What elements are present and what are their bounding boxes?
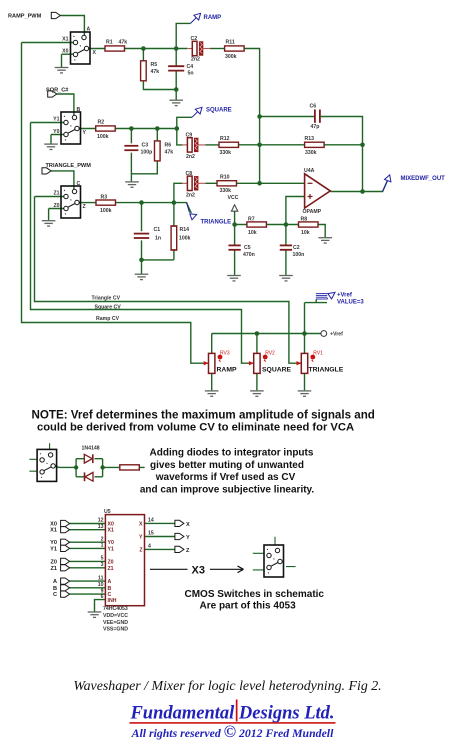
svg-text:4: 4 [148,544,151,550]
svg-text:U5: U5 [104,509,111,515]
svg-text:3: 3 [101,562,104,568]
svg-text:B: B [77,107,81,113]
svg-text:2n2: 2n2 [191,57,200,63]
svg-text:X1: X1 [50,528,57,534]
svg-text:47p: 47p [311,124,320,130]
svg-text:RAMP: RAMP [204,15,222,21]
svg-text:R10: R10 [220,175,230,181]
svg-text:10k: 10k [248,230,257,236]
svg-text:47k: 47k [165,150,174,156]
svg-text:VALUE=3: VALUE=3 [337,300,364,306]
svg-text:Y1: Y1 [108,546,114,552]
svg-text:Y1: Y1 [50,546,57,552]
svg-text:SQUARE: SQUARE [206,108,232,114]
svg-text:100n: 100n [293,252,305,258]
svg-text:RV3: RV3 [220,350,230,356]
svg-text:C2: C2 [191,36,198,42]
svg-text:5n: 5n [188,71,194,77]
svg-text:X: X [93,50,97,56]
svg-text:47k: 47k [119,40,128,46]
svg-text:R5: R5 [151,62,158,68]
svg-text:Z0: Z0 [53,203,59,209]
svg-text:Z: Z [186,548,190,554]
svg-text:NOTE: Vref determines the maxi: NOTE: Vref determines the maximum amplit… [32,408,375,421]
svg-text:R6: R6 [165,143,172,149]
svg-text:10: 10 [98,582,104,588]
svg-text:C4: C4 [187,64,194,70]
svg-text:2n2: 2n2 [186,154,195,160]
svg-text:C2: C2 [293,245,300,251]
svg-text:C6: C6 [310,104,317,110]
svg-text:C9: C9 [186,133,193,139]
svg-text:Y0: Y0 [53,129,59,135]
svg-text:100k: 100k [179,236,191,242]
svg-text:Y0: Y0 [50,540,57,546]
svg-text:R12: R12 [220,136,230,142]
svg-text:330k: 330k [305,150,317,156]
svg-text:VEE=GND: VEE=GND [103,620,128,626]
svg-text:47k: 47k [151,69,160,75]
svg-text:100k: 100k [100,208,112,214]
svg-text:+Vref: +Vref [337,293,353,299]
svg-text:12: 12 [98,518,104,524]
svg-text:11: 11 [98,575,104,581]
svg-text:Z1: Z1 [108,566,114,572]
svg-text:330k: 330k [220,188,232,194]
svg-text:1: 1 [101,543,104,549]
svg-text:VCC: VCC [228,195,239,201]
svg-text:14: 14 [148,518,154,524]
svg-text:Z1: Z1 [53,191,59,197]
svg-text:+Vref: +Vref [330,332,343,338]
svg-text:could be derived from volume C: could be derived from volume CV to elimi… [37,422,354,434]
svg-text:300k: 300k [225,54,237,60]
svg-text:10k: 10k [301,230,310,236]
svg-text:B: B [108,586,112,592]
svg-text:C3: C3 [142,143,149,149]
svg-text:Waveshaper / Mixer for logic l: Waveshaper / Mixer for logic level heter… [73,679,381,694]
svg-text:R7: R7 [248,217,255,223]
svg-text:B: B [53,586,57,592]
svg-text:X0: X0 [108,522,114,528]
svg-text:Z0: Z0 [108,559,114,565]
svg-text:C1: C1 [154,227,161,233]
svg-text:RAMP: RAMP [217,367,237,374]
svg-text:X0: X0 [50,522,57,528]
svg-text:100p: 100p [141,150,153,156]
svg-text:RAMP_PWM: RAMP_PWM [8,14,42,20]
svg-text:A: A [53,579,57,585]
svg-text:C8: C8 [186,171,193,177]
svg-text:1n: 1n [155,236,161,242]
svg-text:X: X [139,521,143,527]
svg-text:TRIANGLE_PWM: TRIANGLE_PWM [46,163,92,169]
svg-text:R14: R14 [180,227,190,233]
svg-text:U4A: U4A [304,168,315,174]
svg-text:R8: R8 [301,217,308,223]
svg-text:5: 5 [101,556,104,562]
svg-text:Y: Y [186,535,190,541]
svg-text:VDD=VCC: VDD=VCC [103,613,128,619]
svg-text:R2: R2 [98,120,105,126]
svg-text:INH: INH [108,598,117,604]
svg-text:R13: R13 [305,136,315,142]
svg-text:Z0: Z0 [50,559,57,565]
svg-text:Y1: Y1 [53,117,59,123]
svg-text:A: A [108,579,112,585]
svg-text:OPAMP: OPAMP [303,209,322,215]
svg-text:Y0: Y0 [108,540,114,546]
svg-text:X3: X3 [192,565,205,577]
svg-text:Y: Y [83,130,87,136]
svg-text:RV1: RV1 [313,350,323,356]
svg-text:2: 2 [101,536,104,542]
svg-text:and can improve subjective lin: and can improve subjective linearity. [140,484,315,495]
svg-text:waveforms if Vref used as CV: waveforms if Vref used as CV [155,472,296,483]
svg-text:Adding diodes to integrator in: Adding diodes to integrator inputs [150,448,314,459]
svg-text:2n2: 2n2 [186,193,195,199]
svg-text:X0: X0 [62,49,68,55]
svg-text:Are part of this 4053: Are part of this 4053 [200,600,297,611]
svg-text:TRIANGLE: TRIANGLE [309,367,344,374]
svg-text:C: C [77,181,81,187]
svg-text:SQR_C#: SQR_C# [46,88,69,94]
svg-text:MIXEDWF_OUT: MIXEDWF_OUT [401,176,446,182]
svg-text:74HC4053: 74HC4053 [103,606,128,612]
svg-text:R3: R3 [101,195,108,201]
svg-text:Fundamental Designs Ltd.: Fundamental Designs Ltd. [129,704,334,724]
svg-text:Y: Y [139,535,143,541]
svg-text:470n: 470n [243,252,255,258]
svg-text:Ramp CV: Ramp CV [96,316,120,322]
svg-text:SQUARE: SQUARE [262,367,292,374]
svg-text:R1: R1 [106,40,113,46]
svg-text:X1: X1 [108,528,114,534]
svg-text:TRIANGLE: TRIANGLE [201,220,232,226]
svg-text:A: A [87,27,91,33]
svg-text:RV2: RV2 [265,350,275,356]
svg-text:C: C [53,592,57,598]
svg-text:X: X [186,522,190,528]
svg-text:Z1: Z1 [50,566,57,572]
svg-text:R11: R11 [226,40,235,46]
svg-text:6: 6 [101,594,104,600]
svg-text:330k: 330k [220,150,232,156]
svg-text:C5: C5 [244,245,251,251]
svg-text:100k: 100k [97,134,109,140]
svg-text:VSS=GND: VSS=GND [103,627,128,633]
svg-text:Triangle CV: Triangle CV [92,296,121,302]
svg-text:1N4148: 1N4148 [82,446,100,452]
svg-text:CMOS Switches in schematic: CMOS Switches in schematic [185,589,325,600]
svg-text:gives better muting of unwante: gives better muting of unwanted [150,460,304,471]
svg-text:X1: X1 [62,37,68,43]
svg-text:15: 15 [148,531,154,537]
svg-text:13: 13 [98,524,104,530]
svg-text:Square CV: Square CV [95,305,122,311]
